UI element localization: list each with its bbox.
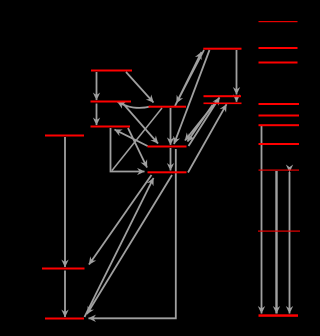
wire P2 down to N2 diagonal [185, 98, 219, 141]
level R9 [258, 231, 300, 232]
level R3 [259, 62, 298, 64]
wire L2 to L3 vertical arrow [64, 271, 66, 318]
level N3 [148, 171, 187, 173]
wire P1 down to N1 diagonal [177, 50, 205, 103]
wire R8-R10 double arrow [289, 172, 291, 314]
level R10 [259, 314, 299, 317]
wire P3 down to N2 diagonal [188, 105, 213, 142]
level L1 [45, 135, 84, 137]
wire M3 corner path to N3 [111, 128, 145, 172]
wire R8 down to R10 arrow [275, 171, 277, 314]
wire N1 to M2 curved shallow arrow [118, 102, 151, 108]
level P2 [204, 95, 242, 97]
wire N1 to N2 vertical arrow [170, 108, 172, 145]
wire N2 up to P2 diagonal [189, 98, 220, 147]
wire M3 to N3 diagonal [128, 128, 147, 168]
level R5 [259, 115, 300, 117]
wire N3 to L2 long diagonal [89, 175, 152, 265]
wire M2 to M3 vertical arrow [96, 104, 98, 126]
wire L3 up to N3 pump diagonal [85, 178, 154, 317]
level P3 [204, 103, 242, 105]
level N2 [148, 146, 187, 148]
level L2 [42, 268, 85, 270]
wire R6 down to R10 arrow [261, 126, 263, 314]
wire N3 to L3 long diagonal [87, 175, 172, 314]
wire N1 down to small corner [112, 108, 162, 171]
level R6 [259, 124, 300, 126]
wire N2 corner path down to L3 [89, 149, 176, 318]
wire P2 to P3 vertical arrow [236, 98, 238, 102]
level R7 [259, 143, 300, 145]
wire P1 down to N2 diagonal [174, 50, 210, 144]
wire N3 up to P3 diagonal [188, 104, 227, 172]
level P1 [203, 48, 241, 50]
wire M2 to N2 diagonal [123, 104, 158, 144]
level M2 [91, 101, 132, 103]
level R2 [259, 47, 298, 49]
level N1 [149, 106, 187, 108]
level M3 [91, 126, 131, 128]
level R8 [259, 170, 300, 171]
level M1 [91, 70, 132, 72]
wire P1 to P2 vertical arrow [236, 50, 238, 95]
level R1 [259, 21, 298, 22]
level R4 [259, 103, 300, 105]
wire M1 to N1 diagonal [126, 72, 154, 103]
level L3 [45, 318, 84, 320]
wire N2 up to M3 shallow arrow [115, 130, 148, 147]
wire M1 to M2 vertical arrow [96, 72, 98, 100]
wire N1 up to P1 diagonal [175, 52, 202, 106]
wire L1 to L2 vertical arrow [64, 137, 66, 267]
wire N2 to N3 vertical arrow [170, 148, 172, 171]
